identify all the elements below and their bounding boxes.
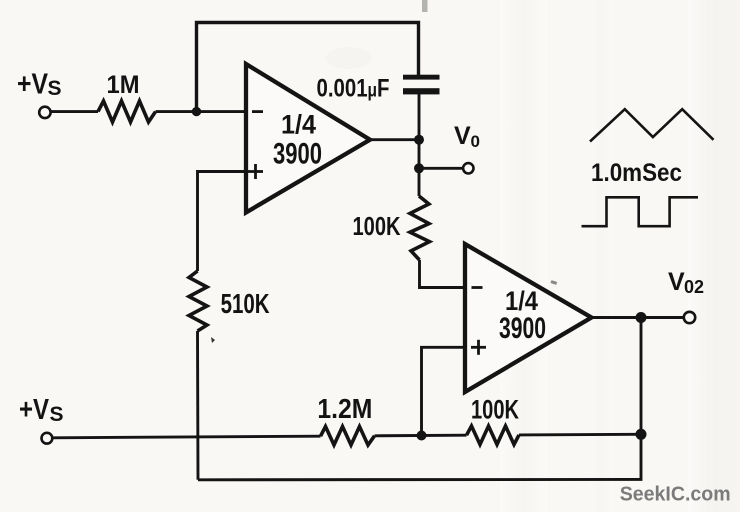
svg-text:3900: 3900 — [273, 138, 322, 171]
svg-text:1/4: 1/4 — [281, 110, 316, 140]
op-amp U2 1/4 3900 — [465, 244, 592, 392]
svg-text:1.0mSec: 1.0mSec — [591, 159, 682, 187]
resistor R3 510K — [189, 271, 270, 331]
svg-text:510K: 510K — [221, 288, 270, 319]
wire R4 to node B — [375, 434, 467, 437]
watermark SeekIC.com — [620, 483, 731, 506]
svg-text:S: S — [50, 403, 64, 426]
node U1 out junction dot — [414, 135, 424, 145]
svg-text:0.001μF: 0.001μF — [317, 75, 390, 103]
wire R1 to node A — [156, 110, 245, 113]
terminal +VS bottom — [19, 394, 64, 444]
svg-text:1.2M: 1.2M — [317, 393, 372, 424]
terminal V02 — [641, 268, 704, 323]
wire node B up to U2 + input — [422, 347, 466, 435]
resistor R5 100K — [467, 394, 520, 444]
resistor R1 1M — [98, 71, 156, 122]
terminal V0 — [419, 122, 480, 174]
node bottom right junction dot — [636, 429, 647, 440]
scan smudge top middle — [326, 47, 372, 69]
svg-text:3900: 3900 — [499, 312, 546, 345]
svg-text:+V: +V — [17, 69, 49, 101]
wire R5 to bottom right node — [519, 433, 641, 437]
node B junction dot — [417, 431, 427, 441]
node A junction dot — [192, 107, 201, 116]
wire U2 output — [589, 316, 641, 319]
square waveform icon — [582, 197, 699, 226]
resistor R4 1.2M — [317, 393, 374, 445]
node U2 out junction dot — [636, 312, 647, 323]
triangle waveform icon — [590, 109, 714, 141]
svg-text:SeekIC.com: SeekIC.com — [620, 483, 731, 506]
svg-text:1M: 1M — [107, 71, 140, 99]
svg-text:+V: +V — [19, 394, 50, 426]
wire top feedback loop — [197, 23, 419, 111]
wire +VS bottom to R4 — [52, 436, 321, 438]
scan speck near 510K — [211, 337, 215, 343]
wire U1 + input to left vertical — [198, 172, 245, 272]
wire U2 out down to bottom — [640, 318, 643, 435]
capacitor C1 0.001uF — [317, 75, 440, 103]
op-amp U1 1/4 3900 — [246, 64, 370, 213]
scan speck left of V02 — [551, 280, 558, 285]
svg-text:0: 0 — [471, 132, 480, 151]
label 1.0mSec — [591, 159, 682, 187]
svg-text:V: V — [454, 122, 471, 150]
wire C1 bottom to output node — [418, 94, 421, 140]
node V0 junction dot — [414, 163, 424, 173]
svg-text:02: 02 — [684, 277, 704, 297]
wire from +VS to R1 — [51, 110, 98, 113]
svg-text:100K: 100K — [353, 211, 401, 241]
terminal +VS top — [17, 69, 62, 119]
wire output node down — [418, 140, 421, 169]
svg-text:100K: 100K — [471, 394, 519, 424]
scan mark top center — [422, 0, 428, 12]
wire 510K down to bottom bus — [196, 331, 199, 480]
wire U1 output — [368, 138, 419, 141]
wire bottom right corner to bus — [198, 434, 641, 480]
resistor R2 100K vertical — [353, 168, 466, 287]
svg-text:V: V — [668, 268, 685, 296]
svg-text:S: S — [48, 77, 62, 100]
